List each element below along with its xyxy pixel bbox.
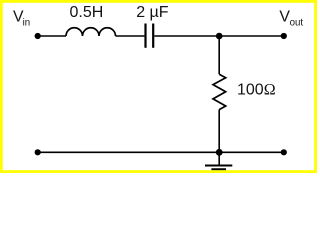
junction node top bbox=[216, 33, 223, 40]
capacitor C1 bbox=[146, 24, 154, 48]
ground bbox=[205, 152, 232, 169]
wire capacitor to Vout bbox=[154, 35, 283, 37]
resistor R1 bbox=[213, 74, 226, 109]
node Vin bbox=[35, 33, 41, 39]
node Vout bbox=[281, 33, 287, 39]
svg-text:out: out bbox=[290, 17, 304, 28]
label Vout bbox=[279, 9, 303, 29]
wire Vin to inductor bbox=[38, 35, 66, 37]
wire junction down to resistor bbox=[218, 36, 220, 74]
junction node bottom bbox=[216, 149, 223, 156]
label 0.5H bbox=[70, 4, 104, 21]
node bottom right bbox=[281, 149, 287, 155]
wire resistor down to bottom rail bbox=[218, 110, 220, 153]
label 100 ohm bbox=[237, 82, 276, 99]
label Vin bbox=[13, 9, 30, 29]
node bottom left bbox=[35, 149, 41, 155]
bottom wire rail bbox=[38, 151, 284, 153]
svg-text:in: in bbox=[23, 17, 31, 28]
svg-text:0.5H: 0.5H bbox=[70, 4, 104, 21]
svg-text:2 µF: 2 µF bbox=[136, 4, 169, 21]
label 2 uF bbox=[136, 4, 169, 21]
inductor L1 bbox=[66, 28, 116, 36]
wire inductor to capacitor bbox=[116, 35, 145, 37]
svg-text:100Ω: 100Ω bbox=[237, 82, 276, 99]
